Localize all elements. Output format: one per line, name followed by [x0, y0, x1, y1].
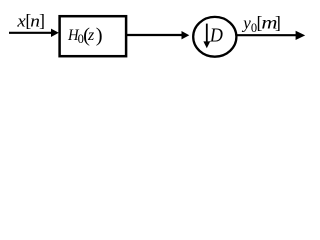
node x[n] input signal label	[16, 11, 45, 31]
down-arrow symbol inside downsampler	[203, 24, 210, 49]
svg-text:D: D	[209, 24, 223, 46]
filter block H0(z)	[60, 16, 127, 56]
wire from H0 box to downsampler	[127, 31, 189, 39]
svg-text:x: x	[16, 11, 25, 30]
svg-text:z: z	[87, 27, 95, 44]
svg-text:): )	[96, 25, 103, 47]
node y0[m] output signal label	[241, 13, 281, 36]
wire output arrow from downsampler	[237, 31, 306, 40]
svg-text:]: ]	[39, 11, 45, 31]
downsampler circle	[193, 17, 236, 57]
value label D	[209, 24, 223, 46]
value label H0(z)	[67, 25, 102, 47]
svg-text:]: ]	[275, 13, 281, 33]
wire input arrow into H0 box	[9, 29, 59, 37]
svg-text:y: y	[241, 13, 251, 32]
